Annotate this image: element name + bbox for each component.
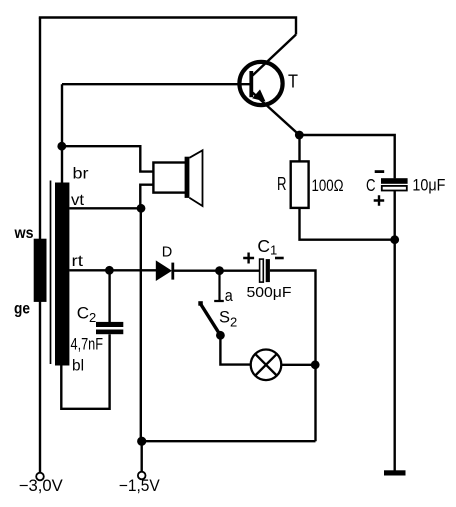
wire diode to C1 [174,270,260,272]
svg-text:vt: vt [71,192,85,209]
svg-text:a: a [225,286,233,305]
wire base horizontal [62,83,250,85]
label minus of C1 [275,257,284,260]
wire node to capacitor C branch [299,135,394,178]
svg-text:10μF: 10μF [412,176,445,194]
wire base stub down to br node [61,84,63,183]
svg-text:bl: bl [72,358,84,375]
node junction below transistor [295,131,304,140]
junction -1.5V node [137,437,146,446]
wire speaker lower stub [140,185,154,209]
wire -3.0V rail left vertical [39,18,41,473]
svg-text:ge: ge [14,301,30,318]
diode D [156,260,174,281]
svg-text:100Ω: 100Ω [312,177,344,195]
label plus of C1 [243,253,254,264]
capacitor C bottom plate [382,186,407,191]
wire vt tap [69,207,141,209]
wire br to speaker upper stub [62,146,154,171]
label minus of C [375,170,385,173]
transformer primary winding bar [34,239,47,302]
wire rt node down to C2 [108,270,110,322]
ground [384,470,406,475]
transformer core line [50,181,52,365]
svg-text:ws: ws [14,225,34,242]
junction vt node [137,204,146,213]
wire resistor bottom to junction [300,208,395,240]
transformer secondary winding bar [55,183,69,366]
wire bottom between -1.5V and lamp branch [142,440,316,442]
svg-text:D: D [162,244,173,261]
wire emitter diagonal to node [253,93,300,136]
label plus of C [374,195,385,206]
wire capacitor C bottom to ground [394,191,396,471]
wire lamp to right branch [281,364,315,366]
svg-text:C2: C2 [77,304,97,326]
svg-text:T: T [288,71,298,92]
svg-text:rt: rt [72,253,84,270]
wire top horizontal from rail to collector corner [39,18,296,35]
svg-text:500μF: 500μF [247,284,292,301]
wire switch to lamp [220,335,250,364]
wire C1 right to lamp branch vertical [270,271,316,442]
svg-text:−3,0V: −3,0V [19,477,63,495]
junction at R-C bottom [390,235,399,244]
terminal -1.5V [138,472,146,480]
svg-text:R: R [277,174,287,194]
wire C2 bottom loop to bl [61,334,109,409]
capacitor C1 right plate [266,259,270,282]
wire vt node down to -1.5V junction [140,208,142,441]
svg-text:br: br [73,166,90,183]
lamp [251,350,282,381]
capacitor C2 [96,322,123,334]
switch S2 arm [198,301,225,339]
wire -1.5V junction to terminal [140,441,142,472]
terminal -3.0V [36,473,44,481]
capacitor C1 left plate [260,259,264,282]
junction rt node [105,266,114,275]
wire rt tap [69,269,156,271]
junction a node [215,266,224,275]
wire collector diagonal [253,35,297,76]
loudspeaker [153,150,202,206]
svg-text:−1,5V: −1,5V [119,477,160,495]
wire node down to resistor [298,135,300,162]
junction br node [57,142,66,151]
junction lamp node [311,360,320,369]
svg-text:C: C [366,175,376,195]
capacitor C top plate [381,178,408,184]
svg-text:4,7nF: 4,7nF [71,335,104,353]
wire a contact stub [214,271,224,301]
svg-text:S2: S2 [219,309,237,330]
resistor R [291,161,309,208]
svg-text:C1: C1 [257,236,277,258]
transistor T [239,62,282,105]
